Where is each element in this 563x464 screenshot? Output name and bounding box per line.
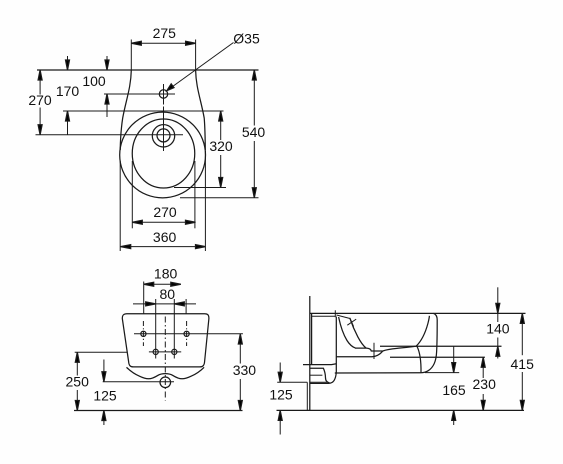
svg-text:250: 250 <box>66 373 90 389</box>
svg-text:320: 320 <box>209 138 233 154</box>
svg-text:125: 125 <box>269 387 293 403</box>
svg-text:275: 275 <box>153 25 177 41</box>
svg-text:415: 415 <box>511 356 535 372</box>
svg-text:170: 170 <box>56 83 80 99</box>
svg-text:270: 270 <box>28 92 52 108</box>
svg-text:360: 360 <box>153 229 177 245</box>
svg-text:80: 80 <box>160 286 176 302</box>
svg-text:Ø35: Ø35 <box>233 31 260 47</box>
svg-text:540: 540 <box>242 124 266 140</box>
svg-text:180: 180 <box>154 266 178 282</box>
svg-text:140: 140 <box>486 321 510 337</box>
svg-text:330: 330 <box>233 362 257 378</box>
svg-text:100: 100 <box>82 73 106 89</box>
svg-text:165: 165 <box>442 382 466 398</box>
svg-text:270: 270 <box>153 204 177 220</box>
svg-text:125: 125 <box>93 388 117 404</box>
svg-text:230: 230 <box>473 376 497 392</box>
